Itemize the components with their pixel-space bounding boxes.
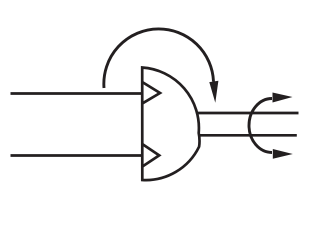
chevron on top input	[143, 82, 160, 103]
big rotation arrow over the top	[104, 29, 219, 103]
chevron on bottom input	[143, 144, 159, 166]
wire: bottom output line	[190, 134, 297, 137]
C-shaped spread arrow (right)	[249, 93, 293, 159]
wire: top output line	[190, 112, 299, 115]
wire: top input line	[11, 92, 143, 95]
wire: bottom input line	[11, 154, 143, 157]
device body (D-shape)	[142, 68, 199, 181]
